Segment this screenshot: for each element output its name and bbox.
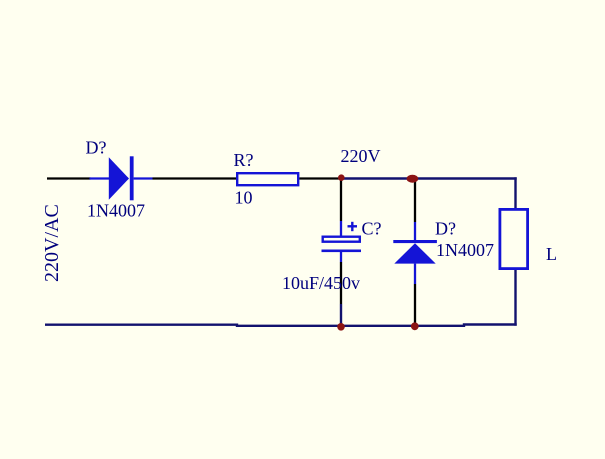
- wire: [47, 177, 91, 179]
- svg-text:C?: C?: [362, 219, 382, 239]
- wire: [45, 325, 517, 326]
- svg-text:L: L: [546, 244, 557, 264]
- svg-text:10uF/450v: 10uF/450v: [282, 273, 360, 293]
- capacitor C1: [322, 179, 362, 326]
- wire: [514, 270, 516, 326]
- diode D1: [90, 156, 153, 200]
- svg-text:10: 10: [235, 188, 253, 208]
- wire: [299, 177, 341, 179]
- svg-text:1N4007: 1N4007: [87, 201, 145, 221]
- node junction: [338, 174, 345, 181]
- node junction: [411, 322, 419, 330]
- wire: [153, 177, 238, 179]
- svg-text:220V: 220V: [341, 146, 381, 166]
- resistor R1: [237, 173, 298, 185]
- node junction: [337, 323, 345, 331]
- svg-text:220V/AC: 220V/AC: [41, 204, 63, 282]
- load L: [500, 209, 528, 268]
- svg-text:D?: D?: [435, 219, 456, 239]
- svg-text:1N4007: 1N4007: [436, 240, 494, 260]
- diode D2: [393, 179, 437, 325]
- wire: [341, 177, 412, 179]
- svg-text:R?: R?: [234, 150, 254, 170]
- wire: [514, 177, 516, 209]
- wire: [412, 177, 517, 179]
- node junction: [407, 175, 419, 183]
- svg-text:D?: D?: [86, 138, 107, 158]
